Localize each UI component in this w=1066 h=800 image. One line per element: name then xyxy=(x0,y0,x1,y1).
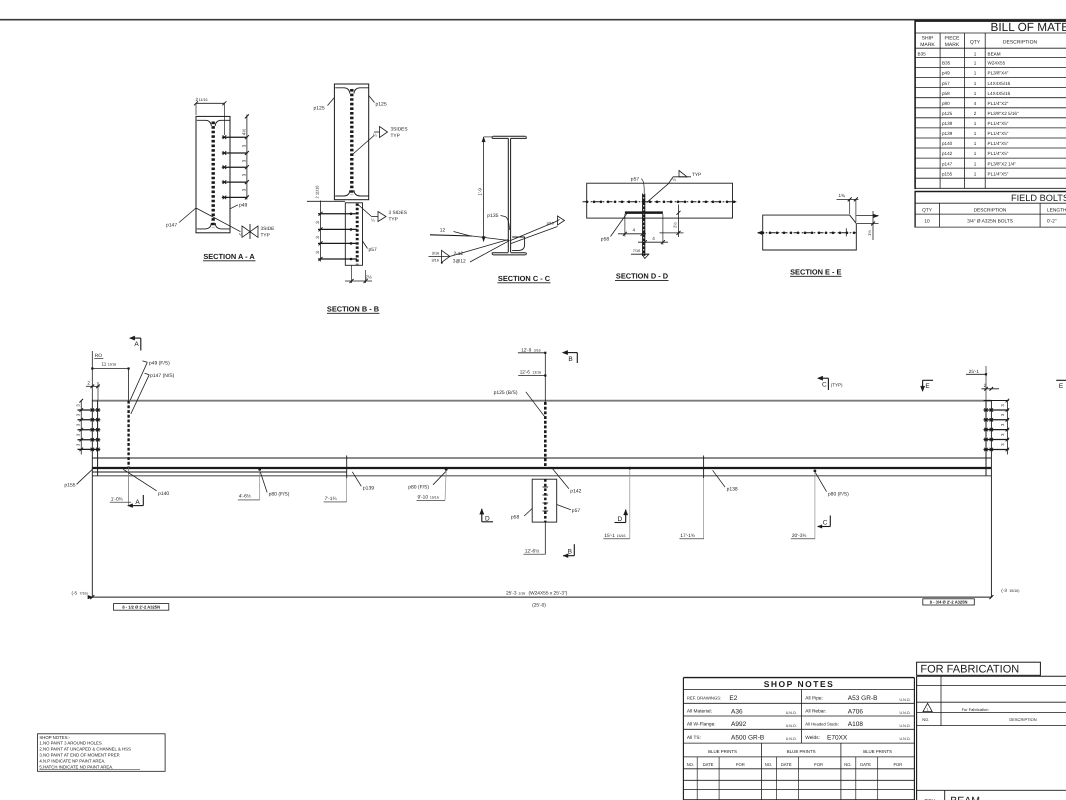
svg-text:12: 12 xyxy=(440,227,446,233)
svg-text:3.NO PAINT AT END OF MOMENT PR: 3.NO PAINT AT END OF MOMENT PREP. xyxy=(39,753,120,758)
svg-text:BLUE PRINTS: BLUE PRINTS xyxy=(863,749,892,754)
svg-text:A36: A36 xyxy=(731,708,743,715)
svg-text:MARK: MARK xyxy=(920,42,935,48)
svg-text:p58: p58 xyxy=(511,515,520,521)
svg-text:4: 4 xyxy=(633,228,636,233)
svg-text:p140: p140 xyxy=(942,141,953,146)
svg-text:E2: E2 xyxy=(729,695,737,702)
svg-text:9'-10: 9'-10 xyxy=(418,495,429,501)
svg-text:E70XX: E70XX xyxy=(827,734,848,741)
svg-text:All TS:: All TS: xyxy=(687,735,701,741)
svg-text:7/16: 7/16 xyxy=(633,249,640,253)
section D-D dimension 4 left xyxy=(624,214,626,237)
section B-B left dimension line xyxy=(320,201,322,262)
svg-text:All Headed Studs:: All Headed Studs: xyxy=(805,722,839,727)
section C-C web xyxy=(507,138,509,252)
svg-text:p147: p147 xyxy=(166,223,177,229)
section E-E right dimension 1 1/2 xyxy=(856,215,878,217)
svg-text:B: B xyxy=(568,549,572,556)
beam right end line xyxy=(990,400,992,597)
svg-text:LENGTH: LENGTH xyxy=(1047,207,1066,213)
svg-text:p57: p57 xyxy=(572,508,581,514)
section marker D left xyxy=(480,509,484,515)
stiffener p125 at section B xyxy=(544,402,547,468)
svg-text:QTY: QTY xyxy=(970,40,981,46)
svg-text:p125 (B/S): p125 (B/S) xyxy=(494,390,518,396)
svg-text:A500 GR-B: A500 GR-B xyxy=(731,734,764,741)
svg-text:3/16: 3/16 xyxy=(534,348,541,352)
svg-text:11: 11 xyxy=(102,362,107,367)
section A-A weld symbol xyxy=(213,217,241,232)
sheet top border line xyxy=(0,19,1066,21)
svg-text:SHIP: SHIP xyxy=(922,36,934,42)
svg-text:p80 (F/S): p80 (F/S) xyxy=(828,491,849,497)
svg-text:p155: p155 xyxy=(64,482,75,488)
svg-text:BLUE PRINTS: BLUE PRINTS xyxy=(708,749,737,754)
svg-text:p58: p58 xyxy=(601,236,610,242)
title block revision table xyxy=(917,675,1066,677)
svg-text:p58: p58 xyxy=(942,91,950,96)
svg-text:DESCRIPTION: DESCRIPTION xyxy=(1003,40,1038,46)
svg-text:p155: p155 xyxy=(942,171,953,176)
svg-text:(TYP): (TYP) xyxy=(831,382,843,387)
svg-text:SECTION A - A: SECTION A - A xyxy=(203,252,255,261)
svg-text:3: 3 xyxy=(315,236,320,239)
svg-text:3SIDES: 3SIDES xyxy=(391,127,408,133)
svg-text:L4X4X5/16: L4X4X5/16 xyxy=(988,81,1011,86)
svg-text:15/16: 15/16 xyxy=(617,534,626,538)
svg-text:QTY: QTY xyxy=(922,207,933,213)
svg-text:FIELD BOLTS: FIELD BOLTS xyxy=(1011,193,1066,203)
svg-text:PL3/8"X4": PL3/8"X4" xyxy=(988,71,1009,76)
svg-text:15/16): 15/16) xyxy=(1009,589,1019,593)
svg-text:¼: ¼ xyxy=(239,232,243,237)
svg-text:¼: ¼ xyxy=(672,177,676,182)
svg-text:U.N.O.: U.N.O. xyxy=(900,711,911,715)
svg-text:1: 1 xyxy=(974,61,977,66)
svg-text:3: 3 xyxy=(241,173,246,176)
section D-D tee piece vertical xyxy=(642,194,644,257)
svg-text:DATE: DATE xyxy=(781,762,792,767)
svg-text:BLUE PRINTS: BLUE PRINTS xyxy=(787,749,816,754)
shop notes center divider xyxy=(800,690,802,744)
bolt dot 1 xyxy=(258,468,261,471)
clip angle p57 p58 below beam xyxy=(532,479,557,522)
section B cut line lower xyxy=(544,522,546,554)
beam top flange line xyxy=(92,400,991,402)
section A-A web stiffener hatch xyxy=(212,122,215,228)
title block bottom row xyxy=(917,789,1066,791)
svg-text:p80: p80 xyxy=(942,101,950,106)
svg-text:TYP: TYP xyxy=(391,133,400,139)
svg-text:FOR: FOR xyxy=(814,762,823,767)
section A-A bolt rows xyxy=(222,136,248,138)
svg-text:SHOP NOTES:-: SHOP NOTES:- xyxy=(39,735,70,740)
svg-text:NO.: NO. xyxy=(765,762,772,767)
section B-B bottom dimension 2 1/2 xyxy=(351,265,353,283)
svg-text:15'-1: 15'-1 xyxy=(604,533,615,539)
svg-text:E: E xyxy=(1059,383,1064,390)
svg-text:13/16: 13/16 xyxy=(532,371,541,375)
svg-text:PL3/8"X2 5/16": PL3/8"X2 5/16" xyxy=(988,111,1019,116)
beam bottom flange thin line xyxy=(92,457,991,459)
svg-text:p49: p49 xyxy=(239,202,248,208)
svg-text:PL1/4"X5": PL1/4"X5" xyxy=(988,151,1009,156)
svg-text:1/16: 1/16 xyxy=(518,592,525,596)
svg-text:PL1/4"X2": PL1/4"X2" xyxy=(988,101,1009,106)
svg-text:p147 (N/S): p147 (N/S) xyxy=(150,373,175,379)
svg-text:3 SIDES: 3 SIDES xyxy=(389,210,407,216)
for fabrication header box xyxy=(917,662,1041,675)
svg-text:(W24X55 x 25'-3"): (W24X55 x 25'-3") xyxy=(529,591,568,597)
section B-B lower angle hatch xyxy=(356,204,359,265)
plate boundary tick 2 xyxy=(703,456,705,479)
svg-text:3: 3 xyxy=(315,221,320,224)
section D-D bolt dots on centerline xyxy=(586,201,589,204)
svg-text:3: 3 xyxy=(241,188,246,191)
svg-text:4.N.P INDICATE NP PAINT AREA.: 4.N.P INDICATE NP PAINT AREA. xyxy=(39,758,105,763)
svg-text:2½: 2½ xyxy=(365,275,372,280)
svg-text:BILL OF MATERIAL: BILL OF MATERIAL xyxy=(991,20,1066,34)
section B-B beam outline xyxy=(334,84,368,200)
section C-C top flange xyxy=(492,136,526,138)
svg-text:MARK: MARK xyxy=(945,42,960,48)
section B-B top flange xyxy=(335,88,369,94)
svg-text:A: A xyxy=(135,499,140,506)
svg-text:13/16: 13/16 xyxy=(108,363,117,367)
section C-C weld symbol right xyxy=(511,222,557,241)
svg-text:U.N.O.: U.N.O. xyxy=(786,724,797,728)
section E-E center line xyxy=(758,232,857,234)
svg-text:p80 (F/S): p80 (F/S) xyxy=(269,492,290,498)
svg-text:A53 GR-B: A53 GR-B xyxy=(848,695,878,702)
section D-D tee piece flange bar xyxy=(625,211,663,213)
svg-text:DESCRIPTION: DESCRIPTION xyxy=(974,207,1007,213)
section marker D right xyxy=(615,522,626,524)
beam left end line xyxy=(91,400,93,597)
svg-text:p57: p57 xyxy=(942,81,950,86)
svg-text:B35: B35 xyxy=(942,61,951,66)
svg-text:TYP: TYP xyxy=(692,172,701,178)
svg-text:(-5: (-5 xyxy=(72,590,78,595)
section D-D dimension 4 right xyxy=(662,214,664,245)
svg-text:2.NO PAINT AT UNCAPED & CHANNE: 2.NO PAINT AT UNCAPED & CHANNEL & HSS xyxy=(39,747,131,752)
svg-text:3@12: 3@12 xyxy=(453,258,466,264)
section A-A top flange xyxy=(197,120,230,126)
svg-text:PL1/4"X5": PL1/4"X5" xyxy=(988,121,1009,126)
svg-text:PL1/4"X5": PL1/4"X5" xyxy=(988,171,1009,176)
svg-text:4: 4 xyxy=(974,101,977,106)
svg-text:FOR: FOR xyxy=(736,762,745,767)
svg-text:FOR FABRICATION: FOR FABRICATION xyxy=(920,664,1019,676)
svg-text:FOR: FOR xyxy=(893,762,902,767)
svg-text:(25'-0): (25'-0) xyxy=(532,603,546,609)
stiffener p49 p147 at section A xyxy=(127,401,129,468)
svg-text:3/16: 3/16 xyxy=(432,258,439,262)
section marker A top xyxy=(129,336,135,340)
svg-text:U.N.O.: U.N.O. xyxy=(786,737,797,741)
svg-text:All Rebar:: All Rebar: xyxy=(805,709,826,715)
svg-text:¼: ¼ xyxy=(371,218,375,223)
svg-text:(-3: (-3 xyxy=(1001,588,1007,593)
svg-text:BEAM: BEAM xyxy=(950,795,980,800)
svg-text:1: 1 xyxy=(974,81,977,86)
right end plate edge xyxy=(985,400,987,476)
svg-text:2½: 2½ xyxy=(672,222,677,228)
bolt dot 2 xyxy=(445,468,448,471)
right end bolt rows xyxy=(984,409,1009,411)
svg-text:SECTION E - E: SECTION E - E xyxy=(790,268,841,277)
svg-text:p140: p140 xyxy=(158,491,169,497)
svg-text:¼: ¼ xyxy=(373,133,377,138)
section D-D beam plan outline xyxy=(587,183,733,218)
svg-text:11/16: 11/16 xyxy=(199,98,208,102)
svg-text:1: 1 xyxy=(974,121,977,126)
left field bolt box xyxy=(114,604,169,611)
bill of material table xyxy=(915,20,1066,22)
field bolts table xyxy=(915,191,1066,193)
svg-text:SECTION C - C: SECTION C - C xyxy=(498,274,551,283)
svg-text:3: 3 xyxy=(241,144,246,147)
left end bolt rows xyxy=(78,409,101,411)
section E-E plate outline xyxy=(763,215,857,250)
svg-text:p147: p147 xyxy=(942,161,953,166)
svg-text:SHOP NOTES: SHOP NOTES xyxy=(764,679,835,689)
svg-text:7/16): 7/16) xyxy=(80,591,88,595)
svg-text:4: 4 xyxy=(652,236,655,241)
svg-text:1'-9: 1'-9 xyxy=(478,188,483,196)
svg-text:1: 1 xyxy=(974,51,977,56)
svg-text:4'-6½: 4'-6½ xyxy=(239,494,251,500)
svg-text:25'-3: 25'-3 xyxy=(506,591,517,597)
svg-text:2: 2 xyxy=(974,111,977,116)
right field bolt box xyxy=(923,599,975,605)
left bolt dimension line xyxy=(80,400,82,454)
svg-text:PL3/8"X2 1/4": PL3/8"X2 1/4" xyxy=(988,161,1017,166)
svg-text:p142: p142 xyxy=(570,489,581,495)
svg-text:BEAM: BEAM xyxy=(988,51,1001,56)
svg-text:20'-3¾: 20'-3¾ xyxy=(792,533,808,539)
section D-D weld flag xyxy=(647,184,669,203)
section B-B weld symbol lower xyxy=(358,205,372,217)
svg-text:PL1/4"X5": PL1/4"X5" xyxy=(988,131,1009,136)
svg-text:DATE: DATE xyxy=(860,762,871,767)
section C-C clip plate xyxy=(512,237,524,250)
svg-text:A: A xyxy=(134,341,139,348)
svg-text:2: 2 xyxy=(984,383,987,388)
section marker C bottom xyxy=(818,525,823,529)
svg-text:1: 1 xyxy=(974,131,977,136)
bolt dot 4 xyxy=(814,470,817,473)
svg-text:1: 1 xyxy=(974,151,977,156)
svg-text:All Pipe:: All Pipe: xyxy=(805,696,823,702)
svg-text:10: 10 xyxy=(924,218,930,224)
svg-text:L4X4X5/16: L4X4X5/16 xyxy=(988,91,1011,96)
svg-text:U.N.O.: U.N.O. xyxy=(900,698,911,702)
svg-text:p125: p125 xyxy=(942,111,953,116)
shop notes table frame xyxy=(683,677,914,679)
svg-text:1: 1 xyxy=(974,71,977,76)
plate boundary tick 1 xyxy=(346,456,348,479)
blue prints column dividers xyxy=(696,757,698,800)
svg-text:15/16: 15/16 xyxy=(430,496,439,500)
bolt dot 3 xyxy=(628,467,631,470)
svg-text:1.NO PAINT 3 AROUND HOLES: 1.NO PAINT 3 AROUND HOLES xyxy=(39,741,102,746)
svg-text:DATE: DATE xyxy=(703,762,714,767)
svg-text:17'-1¾: 17'-1¾ xyxy=(680,533,696,539)
svg-text:NO.: NO. xyxy=(687,762,694,767)
svg-text:2: 2 xyxy=(87,380,90,385)
svg-text:REF. DRAWINGS:: REF. DRAWINGS: xyxy=(687,696,721,701)
section A-A bottom flange xyxy=(197,223,230,229)
section B-B weld symbol upper xyxy=(353,136,374,155)
svg-text:p138: p138 xyxy=(942,121,953,126)
svg-text:TYP: TYP xyxy=(389,216,398,222)
section B-B web stiffener hatch xyxy=(350,89,353,195)
svg-text:DESCRIPTION: DESCRIPTION xyxy=(1009,717,1036,722)
section C-C depth dimension 1'-9 xyxy=(483,137,485,242)
overall dimension line xyxy=(92,596,991,598)
svg-text:PL1/4"X5": PL1/4"X5" xyxy=(988,141,1009,146)
svg-text:B35: B35 xyxy=(918,51,927,56)
svg-text:p125: p125 xyxy=(314,106,325,112)
section A-A beam outline xyxy=(196,116,230,232)
svg-text:p125: p125 xyxy=(376,102,387,108)
svg-text:W24X55: W24X55 xyxy=(988,61,1006,66)
beam left end plate p155 edge xyxy=(97,400,99,476)
svg-text:For Fabrication: For Fabrication xyxy=(962,707,989,712)
svg-text:D: D xyxy=(485,515,490,522)
section marker C top with TYP xyxy=(817,376,823,380)
svg-text:3: 3 xyxy=(241,159,246,162)
svg-text:3/4" Ø A325N BOLTS: 3/4" Ø A325N BOLTS xyxy=(967,218,1013,224)
svg-text:D: D xyxy=(617,516,622,523)
svg-text:1⅜: 1⅜ xyxy=(839,193,846,198)
revision triangle symbol xyxy=(923,703,932,711)
svg-text:p139: p139 xyxy=(942,131,953,136)
section marker E top xyxy=(923,379,933,381)
svg-text:25'-1: 25'-1 xyxy=(969,369,980,374)
svg-text:12'-9: 12'-9 xyxy=(521,347,532,352)
right bolt dimension line xyxy=(1006,400,1008,454)
svg-text:1: 1 xyxy=(974,161,977,166)
svg-text:A706: A706 xyxy=(848,708,864,715)
svg-text:U.N.O.: U.N.O. xyxy=(900,737,911,741)
svg-text:1: 1 xyxy=(974,141,977,146)
svg-text:A108: A108 xyxy=(848,721,864,728)
section B-B bottom flange xyxy=(335,190,369,196)
svg-text:p49: p49 xyxy=(942,71,950,76)
beam bottom flange thick line xyxy=(92,467,991,469)
svg-text:3/16: 3/16 xyxy=(432,252,439,256)
section A-A right dimension line xyxy=(246,115,248,200)
section A cut extension line xyxy=(128,369,130,401)
svg-text:1: 1 xyxy=(927,708,929,712)
svg-text:PIECE: PIECE xyxy=(944,36,960,42)
svg-text:8 - 3/4 Ø 2'-2 A325N: 8 - 3/4 Ø 2'-2 A325N xyxy=(930,600,968,605)
section C-C bottom flange xyxy=(492,253,526,255)
svg-text:p142: p142 xyxy=(942,151,953,156)
section D-D dimension 2 1/2 right xyxy=(660,232,684,234)
svg-text:NO.: NO. xyxy=(922,717,929,722)
svg-text:A992: A992 xyxy=(731,721,747,728)
svg-text:8 - 1/2 Ø 2'-2 A325N: 8 - 1/2 Ø 2'-2 A325N xyxy=(122,605,160,610)
section D-D center line xyxy=(583,201,737,203)
svg-text:1: 1 xyxy=(974,171,977,176)
svg-text:p57: p57 xyxy=(369,247,378,253)
svg-text:p138: p138 xyxy=(727,487,738,493)
svg-text:p135: p135 xyxy=(487,213,498,219)
svg-text:3: 3 xyxy=(315,251,320,254)
svg-text:U.N.O.: U.N.O. xyxy=(786,711,797,715)
svg-text:SECTION D - D: SECTION D - D xyxy=(616,272,669,281)
svg-text:p49 (F/S): p49 (F/S) xyxy=(149,361,170,367)
section B-B lower angle outline xyxy=(345,203,362,265)
svg-text:3/16: 3/16 xyxy=(547,222,554,226)
svg-text:12'-6: 12'-6 xyxy=(520,370,531,375)
svg-text:p80 (F/S): p80 (F/S) xyxy=(408,484,429,490)
shop notes text box xyxy=(38,734,166,772)
svg-text:1: 1 xyxy=(974,91,977,96)
bottom plate p140 line xyxy=(92,471,346,473)
section B cut line upper xyxy=(544,353,546,402)
svg-text:All W-Flange:: All W-Flange: xyxy=(687,722,716,728)
svg-text:C: C xyxy=(823,520,828,527)
svg-text:SECTION B - B: SECTION B - B xyxy=(327,305,379,314)
svg-text:12'-6½: 12'-6½ xyxy=(525,548,540,554)
blue prints section dividers xyxy=(761,743,763,800)
svg-text:NO.: NO. xyxy=(844,762,851,767)
svg-text:2 11/16: 2 11/16 xyxy=(315,185,320,199)
svg-text:0'-2": 0'-2" xyxy=(1047,218,1057,224)
svg-text:E: E xyxy=(925,383,930,390)
svg-text:3SIDE: 3SIDE xyxy=(261,226,275,232)
bottom cover plate line xyxy=(92,475,991,477)
svg-text:4½: 4½ xyxy=(241,129,246,136)
svg-text:7'-1¾: 7'-1¾ xyxy=(325,496,338,502)
svg-text:1'-0¾: 1'-0¾ xyxy=(111,496,124,502)
svg-text:U.N.O.: U.N.O. xyxy=(900,724,911,728)
svg-text:TYP: TYP xyxy=(261,232,270,238)
svg-text:5.HATCH INDICATE NO PAINT AREA: 5.HATCH INDICATE NO PAINT AREA. xyxy=(39,764,113,769)
section marker E far right xyxy=(1056,379,1066,381)
section marker B top xyxy=(562,350,568,354)
svg-text:B: B xyxy=(568,356,572,363)
svg-text:p139: p139 xyxy=(363,486,374,492)
svg-text:Welds:: Welds: xyxy=(805,735,820,741)
section B-B lower bolt rows xyxy=(318,213,357,215)
svg-text:1½: 1½ xyxy=(867,230,872,236)
svg-text:p57: p57 xyxy=(631,177,640,183)
svg-text:C: C xyxy=(822,382,827,389)
section C-C weld leader lines xyxy=(450,240,509,257)
svg-text:All Material:: All Material: xyxy=(687,709,712,715)
